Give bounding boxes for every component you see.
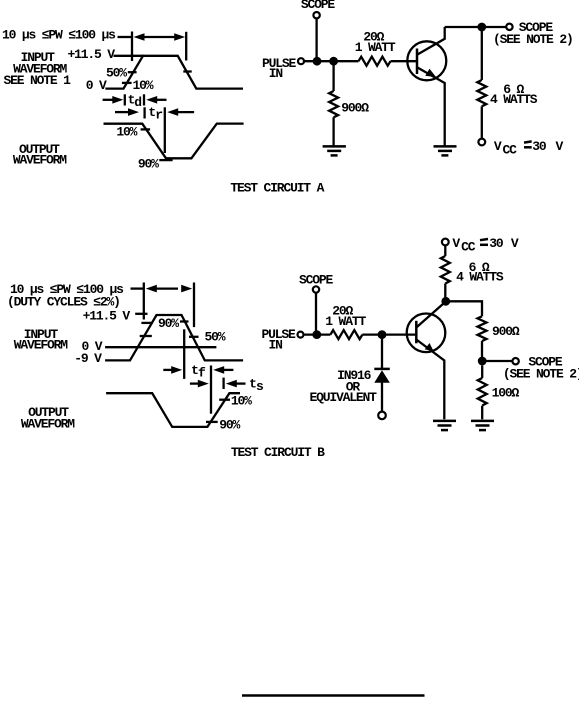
terminal PULSE IN A (open circle) bbox=[298, 58, 304, 64]
dimension ts right arrowhead and line bbox=[226, 380, 237, 388]
tick 90% output falling edge A bbox=[159, 159, 172, 161]
tick 50% rising edge A bbox=[128, 71, 137, 73]
svg-text:10 μs ≤PW ≤100 μs: 10 μs ≤PW ≤100 μs bbox=[2, 28, 116, 43]
svg-text:+11.5 V: +11.5 V bbox=[68, 47, 116, 62]
svg-text:f: f bbox=[198, 366, 206, 381]
transistor Q2 (NPN, circuit B) bbox=[407, 302, 446, 420]
tick 90% output rising edge B bbox=[206, 421, 218, 423]
node junction B3 (collector) bbox=[441, 297, 450, 306]
dimension PW A left arrowhead bbox=[134, 33, 145, 41]
svg-text:WAVEFORM: WAVEFORM bbox=[13, 152, 67, 167]
wire resistor to base B bbox=[362, 333, 415, 335]
svg-text:EQUIVALENT: EQUIVALENT bbox=[310, 390, 378, 405]
wire diode to terminal bbox=[381, 383, 383, 412]
dimension PW A line left bbox=[118, 36, 133, 38]
svg-text:TEST CIRCUIT A: TEST CIRCUIT A bbox=[230, 181, 324, 196]
tick 50% falling edge A bbox=[183, 70, 191, 72]
dimension tr A left tick bbox=[143, 107, 145, 118]
dimension PW A mid line bbox=[144, 36, 176, 38]
diode CR1 IN916 (cathode bar) bbox=[374, 368, 390, 371]
resistor 900 ohm A (base shunt) bbox=[329, 91, 338, 117]
svg-text:r: r bbox=[155, 108, 162, 123]
transistor Q1 (NPN, circuit A) bbox=[407, 27, 446, 146]
dimension PW B line left bbox=[131, 287, 144, 289]
dimension PW B mid line bbox=[156, 287, 178, 289]
wire Vcc to resistor 6 ohm B bbox=[444, 245, 446, 256]
+11.5 V level leader line A bbox=[114, 55, 144, 57]
wire node B2 down to diode bbox=[381, 335, 383, 368]
svg-text:SEE NOTE 1: SEE NOTE 1 bbox=[4, 73, 72, 88]
svg-text:TEST CIRCUIT B: TEST CIRCUIT B bbox=[231, 445, 325, 460]
svg-text:0 V: 0 V bbox=[86, 78, 107, 93]
svg-text:s: s bbox=[256, 379, 264, 394]
svg-text:CC: CC bbox=[461, 239, 476, 254]
resistor 900 ohm B (divider upper) bbox=[478, 316, 487, 341]
input waveform B trace bbox=[105, 315, 243, 360]
wire resistor to base A bbox=[391, 60, 417, 62]
dimension tf right arrowhead and line bbox=[213, 366, 224, 374]
terminal Vcc B (open circle) bbox=[442, 239, 449, 246]
svg-text:50%: 50% bbox=[106, 65, 127, 80]
terminal Vcc A (open circle) bbox=[478, 139, 485, 146]
svg-text:30: 30 bbox=[532, 139, 547, 154]
svg-text:(SEE NOTE 2): (SEE NOTE 2) bbox=[503, 367, 579, 382]
terminal PULSE IN B (open circle) bbox=[298, 332, 304, 338]
terminal SCOPE right A (open circle) bbox=[506, 24, 512, 30]
terminal SCOPE right B (open circle) bbox=[512, 358, 518, 364]
svg-text:90%: 90% bbox=[158, 316, 179, 331]
resistor 20 ohm B (series base resistor) bbox=[330, 330, 362, 339]
svg-text:WAVEFORM: WAVEFORM bbox=[14, 338, 68, 353]
terminal SCOPE B (open circle) bbox=[313, 286, 319, 292]
dimension tr A right arrowhead and line bbox=[167, 108, 178, 116]
node junction A2 (900 ohm tap) bbox=[329, 57, 338, 66]
wire 100 ohm to ground B bbox=[481, 406, 483, 420]
svg-text:d: d bbox=[134, 95, 141, 110]
node junction A1 (scope tap) bbox=[313, 57, 322, 66]
svg-text:90%: 90% bbox=[219, 418, 240, 433]
tick 10% output rising edge B bbox=[219, 399, 230, 401]
wire divider node to resistor 100 ohm B bbox=[481, 365, 483, 378]
svg-text:V: V bbox=[494, 139, 502, 154]
tick 10% output falling edge A bbox=[141, 128, 151, 130]
tick 50% rising edge B bbox=[140, 335, 152, 337]
svg-text:10%: 10% bbox=[133, 78, 154, 93]
dimension td A left tick bbox=[124, 94, 126, 105]
dimension td A left line and arrowhead bbox=[103, 99, 113, 101]
wire collector rail to divider B bbox=[446, 301, 482, 316]
dimension tr A left line and arrowhead bbox=[115, 111, 129, 113]
dimension PW A left extension tick bbox=[131, 32, 133, 62]
resistor 6 ohm 4 WATTS B (collector load) bbox=[441, 256, 450, 283]
ground symbol B2 (below 100 ohm) bbox=[471, 421, 494, 430]
dimension td A right tick bbox=[143, 94, 145, 105]
dimension PW B left arrowhead bbox=[146, 285, 157, 293]
wire 900 ohm to divider node B bbox=[481, 341, 483, 361]
ground symbol B1 (emitter) bbox=[433, 421, 456, 430]
svg-text:V: V bbox=[556, 139, 564, 154]
svg-text:4 WATTS: 4 WATTS bbox=[490, 92, 538, 107]
wire node to resistor 6 ohm A bbox=[481, 31, 483, 80]
svg-text:10%: 10% bbox=[231, 393, 252, 408]
dimension tf left line and arrowhead bbox=[163, 369, 172, 371]
wire pulse-in to resistor 20 ohm B bbox=[304, 333, 331, 335]
dimension td A right arrowhead and line bbox=[146, 96, 157, 104]
svg-text:1 WATT: 1 WATT bbox=[355, 40, 396, 55]
dimension tr A right tick (long, down to 90% point) bbox=[164, 107, 166, 153]
extension tick from falling-edge 90% down to tf dimension bbox=[183, 329, 185, 379]
tick 50% falling edge B bbox=[189, 336, 199, 338]
wire resistor to Vcc terminal A bbox=[481, 106, 483, 138]
wire scope to input node B bbox=[315, 293, 317, 335]
wire pulse-in to resistor 20 ohm A bbox=[304, 60, 358, 62]
node junction A3 (collector / 6 ohm / scope) bbox=[477, 23, 486, 32]
node junction B1 (scope tap) bbox=[312, 330, 321, 339]
output waveform A trace bbox=[104, 124, 244, 159]
svg-text:1 WATT: 1 WATT bbox=[325, 314, 366, 329]
svg-text:100Ω: 100Ω bbox=[492, 386, 520, 401]
terminal below diode (open circle) bbox=[378, 412, 386, 420]
svg-text:SCOPE: SCOPE bbox=[301, 0, 336, 12]
dimension ts right tick bbox=[222, 378, 224, 389]
+11.5 V leader line B bbox=[135, 313, 147, 315]
wire divider node to scope terminal B bbox=[482, 360, 512, 362]
terminal SCOPE A (open circle) bbox=[313, 12, 319, 18]
0 V reference line B bbox=[105, 346, 216, 348]
svg-text:(DUTY CYCLES ≤2%): (DUTY CYCLES ≤2%) bbox=[7, 295, 120, 310]
wire collector rail A bbox=[445, 26, 507, 28]
svg-text:IN: IN bbox=[269, 66, 283, 81]
dimension PW B right extension tick (long) bbox=[193, 283, 195, 328]
svg-text:-9 V: -9 V bbox=[74, 351, 102, 366]
footer rule bbox=[242, 694, 425, 697]
ground symbol A1 (below 900 ohm) bbox=[323, 146, 346, 155]
tick 90% falling edge B bbox=[180, 320, 189, 322]
svg-text:IN: IN bbox=[269, 338, 283, 353]
svg-text:V: V bbox=[511, 236, 519, 251]
resistor 20 ohm A (series base resistor) bbox=[359, 57, 391, 66]
svg-text:+11.5 V: +11.5 V bbox=[83, 308, 131, 323]
svg-text:900Ω: 900Ω bbox=[492, 324, 520, 339]
wire scope to input node A bbox=[315, 19, 317, 62]
svg-text:4 WATTS: 4 WATTS bbox=[456, 270, 504, 285]
node junction B2 (diode tap) bbox=[378, 330, 387, 339]
svg-text:50%: 50% bbox=[205, 330, 226, 345]
svg-text:(SEE NOTE 2): (SEE NOTE 2) bbox=[493, 32, 573, 47]
wire resistor 900 ohm to ground A bbox=[332, 117, 334, 146]
tick 90% rising edge B bbox=[141, 322, 152, 324]
ground symbol A2 (emitter) bbox=[434, 146, 457, 155]
dimension tf right tick (long, shared with ts) bbox=[210, 366, 212, 414]
resistor 100 ohm B (divider lower) bbox=[478, 378, 487, 405]
svg-text:900Ω: 900Ω bbox=[341, 101, 369, 116]
output waveform B trace bbox=[106, 393, 240, 427]
svg-text:30: 30 bbox=[489, 236, 504, 251]
input waveform A trace bbox=[105, 56, 243, 89]
svg-text:90%: 90% bbox=[138, 157, 159, 172]
dimension PW A right arrowhead bbox=[174, 33, 185, 41]
svg-text:V: V bbox=[452, 236, 460, 251]
dimension PW A right extension tick bbox=[185, 32, 187, 61]
resistor 6 ohm 4 WATTS A (collector load) bbox=[477, 80, 486, 106]
dimension PW B left extension tick bbox=[143, 283, 145, 320]
svg-text:CC: CC bbox=[503, 143, 518, 158]
dimension PW B right arrowhead bbox=[181, 285, 192, 293]
node junction B4 (divider tap) bbox=[478, 357, 487, 366]
dimension ts left line and arrowhead bbox=[190, 382, 199, 384]
wire node A2 down to resistor 900 ohm bbox=[332, 61, 334, 91]
svg-text:WAVEFORM: WAVEFORM bbox=[21, 416, 75, 431]
diode CR1 IN916 (triangle, anode below) bbox=[374, 370, 390, 383]
tick 10% rising edge A bbox=[122, 82, 132, 84]
svg-text:10%: 10% bbox=[116, 125, 137, 140]
wire resistor to collector node B bbox=[444, 284, 446, 302]
